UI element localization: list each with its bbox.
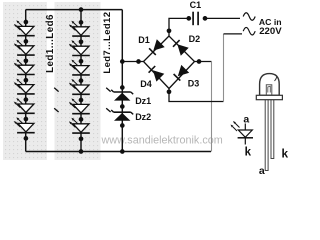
LED Led5 (14, 98, 35, 113)
diode D1 (149, 39, 165, 55)
svg-text:www.sandielektronik.com: www.sandielektronik.com (101, 135, 223, 147)
junction dot (120, 59, 125, 64)
LED Led10 (69, 79, 90, 94)
LED Led12 (69, 118, 90, 133)
junction dot (167, 89, 172, 94)
junction dot (120, 149, 125, 154)
svg-text:220V: 220V (259, 26, 282, 37)
zener Dz2 (111, 110, 133, 121)
junction dot (79, 39, 84, 44)
bridge diamond (144, 36, 195, 89)
diode D3 (174, 65, 190, 81)
capacitor C1 (193, 12, 198, 26)
LED Led4 (14, 79, 35, 94)
junction dot (24, 117, 29, 122)
junction dot (24, 97, 29, 102)
junction dot (197, 59, 202, 64)
break mark 1a (54, 88, 58, 92)
junction dot (24, 39, 29, 44)
wire bottom bus (26, 151, 211, 153)
LED symbol legend (231, 121, 254, 145)
label stripe 1 (47, 0, 55, 160)
LED Led3 (14, 59, 35, 74)
dotted grid panel (3, 2, 104, 160)
wire column2 spine (80, 10, 82, 152)
break mark 2b (106, 108, 110, 112)
physical LED drawing (256, 74, 282, 171)
junction dot (79, 20, 84, 25)
junction dot (136, 59, 141, 64)
junction dot (167, 28, 172, 33)
wire C1 to AC terminal 1 (205, 17, 240, 19)
junction dot (24, 20, 29, 25)
svg-text:Led7...Led12: Led7...Led12 (102, 12, 113, 74)
junction dot (79, 78, 84, 83)
LED Led1 (14, 20, 35, 35)
junction dot (79, 149, 84, 154)
break mark 2a (106, 88, 110, 92)
junction dot (120, 85, 125, 90)
LED Led9 (69, 60, 90, 75)
AC sine symbol 1 (243, 13, 255, 21)
svg-text:a: a (259, 165, 265, 175)
LED Led8 (69, 40, 90, 55)
wire column1 spine (25, 10, 27, 152)
junction dot (120, 104, 125, 109)
svg-text:D4: D4 (140, 79, 152, 89)
junction dot (24, 58, 29, 63)
junction dot (120, 123, 125, 128)
junction dot (203, 16, 208, 21)
wire right rail (121, 10, 123, 152)
svg-text:k: k (245, 147, 252, 159)
junction dot (24, 136, 29, 141)
wire return vertical (211, 62, 213, 152)
svg-text:Led1...Led6: Led1...Led6 (45, 14, 56, 73)
wire AC terminal 2 horizontal (224, 33, 243, 35)
LED Led11 (69, 98, 90, 113)
svg-text:a: a (243, 114, 249, 126)
svg-text:D3: D3 (188, 79, 200, 89)
junction dot (79, 98, 84, 103)
LED Led2 (14, 40, 35, 55)
junction dot (79, 59, 84, 64)
junction dot (24, 78, 29, 83)
LED Led7 (69, 21, 90, 36)
svg-text:D1: D1 (138, 35, 150, 45)
break mark 1b (54, 108, 58, 112)
svg-text:D2: D2 (189, 34, 201, 44)
junction dot (79, 117, 84, 122)
junction dot (186, 16, 191, 21)
junction dot (79, 136, 84, 141)
wire AC terminal 2 vertical (223, 34, 225, 102)
wire top bus (26, 9, 123, 11)
LED Led6 (14, 117, 35, 132)
diode D2 (173, 40, 189, 56)
wire bridge bottom down (169, 89, 224, 102)
wire bridge top to C1 (169, 18, 189, 36)
junction dot (79, 7, 84, 12)
svg-text:k: k (282, 146, 288, 160)
AC sine symbol 2 (243, 27, 255, 35)
svg-text:C1: C1 (190, 0, 202, 10)
wire rail to bridge left (122, 61, 143, 63)
wire bridge right stub (195, 61, 212, 63)
svg-text:Dz2: Dz2 (135, 112, 151, 122)
diode D4 (149, 66, 165, 82)
svg-text:Dz1: Dz1 (135, 96, 151, 106)
label stripe 2 (101, 0, 116, 160)
zener Dz1 (111, 90, 133, 101)
